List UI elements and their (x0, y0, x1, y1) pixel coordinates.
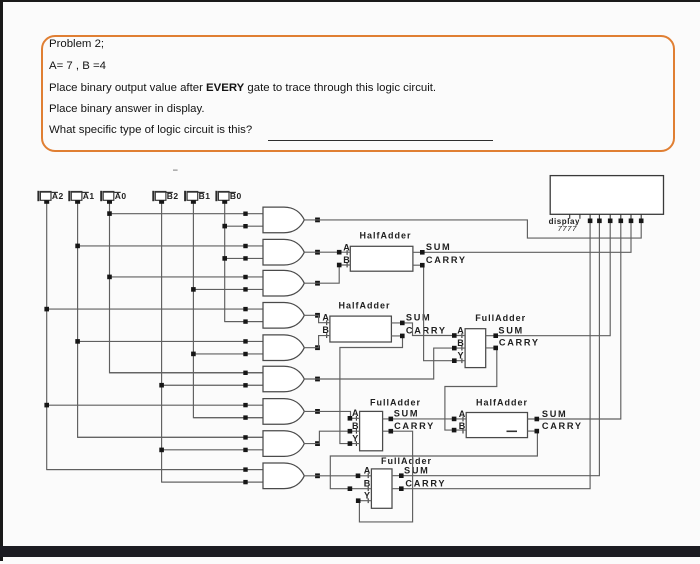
svg-text:CARRY: CARRY (542, 421, 583, 431)
svg-text:HalfAdder: HalfAdder (476, 398, 528, 408)
svg-text:A: A (364, 466, 371, 476)
svg-text:FullAdder: FullAdder (370, 398, 421, 408)
svg-text:SUM: SUM (404, 466, 430, 476)
svg-text:SUM: SUM (406, 313, 432, 323)
svg-text:B: B (322, 325, 329, 335)
svg-text:CARRY: CARRY (499, 338, 540, 348)
svg-text:7777: 7777 (558, 224, 577, 233)
svg-text:SUM: SUM (542, 409, 568, 419)
svg-text:HalfAdder: HalfAdder (359, 231, 411, 241)
svg-text:B: B (364, 479, 371, 489)
svg-text:SUM: SUM (394, 409, 420, 419)
svg-text:CARRY: CARRY (426, 255, 467, 265)
svg-text:B: B (352, 421, 359, 431)
svg-text:HalfAdder: HalfAdder (338, 301, 390, 311)
svg-text:Y: Y (352, 434, 358, 444)
svg-text:SUM: SUM (498, 326, 524, 336)
svg-text:Y: Y (364, 491, 370, 501)
svg-text:B: B (457, 338, 464, 348)
svg-text:A: A (352, 408, 359, 418)
svg-text:Y: Y (457, 351, 463, 361)
svg-text:A: A (322, 313, 329, 323)
svg-text:A: A (459, 409, 466, 419)
svg-text:SUM: SUM (426, 242, 452, 252)
svg-text:CARRY: CARRY (405, 479, 446, 489)
svg-text:CARRY: CARRY (394, 421, 435, 431)
svg-text:A: A (457, 326, 464, 336)
svg-text:FullAdder: FullAdder (475, 313, 526, 323)
